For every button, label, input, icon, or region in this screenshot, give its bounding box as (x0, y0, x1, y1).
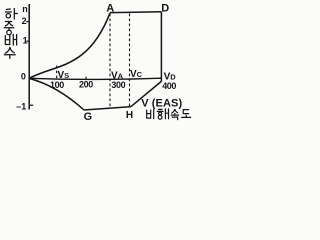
svg-text:300: 300 (111, 80, 125, 90)
korean label 비행속도 (flight speed), hand-drawn glyphs (147, 109, 191, 120)
dashed line VC (129, 14, 131, 107)
svg-text:G: G (84, 111, 93, 123)
svg-text:n: n (22, 4, 28, 14)
svg-text:100: 100 (50, 80, 64, 90)
glyph 행 (157, 109, 168, 119)
glyph 수 (4, 48, 15, 59)
glyph 도 (182, 110, 191, 118)
x-axis (29, 78, 161, 79)
svg-text:2: 2 (22, 16, 27, 26)
glyph 배 (5, 35, 16, 46)
D-E vertical (160, 12, 162, 82)
glyph 속 (171, 109, 179, 119)
dashed line Vs (56, 66, 58, 79)
svg-text:400: 400 (162, 81, 176, 91)
glyph 비 (147, 109, 154, 119)
glyph 중 (4, 22, 14, 35)
dashed line VA (109, 14, 111, 109)
svg-text:0: 0 (21, 72, 26, 82)
svg-text:200: 200 (79, 79, 93, 89)
stall curve 0 to A (29, 13, 110, 78)
svg-text:H: H (126, 110, 133, 121)
svg-text:1: 1 (23, 35, 28, 45)
bottom line G-H (84, 107, 131, 110)
svg-text:A: A (106, 2, 114, 14)
tick n=2 (26, 21, 29, 23)
top line A-D (110, 11, 161, 14)
svg-text:D: D (161, 2, 169, 14)
tick n=-1 (29, 104, 33, 106)
svg-text:–1: –1 (16, 101, 26, 111)
tick V=200 (85, 77, 87, 79)
y-axis (28, 4, 30, 110)
negative stall curve 0 to G (29, 78, 84, 110)
vertical korean label 하중배수 (load factor), hand-drawn glyphs (4, 9, 17, 59)
svg-text:V (EAS): V (EAS) (141, 98, 182, 110)
background paper (0, 0, 193, 123)
svg-text:VC: VC (130, 69, 143, 80)
tick n=1 (26, 40, 29, 42)
glyph 하 (5, 9, 17, 20)
line H-E (131, 82, 161, 107)
